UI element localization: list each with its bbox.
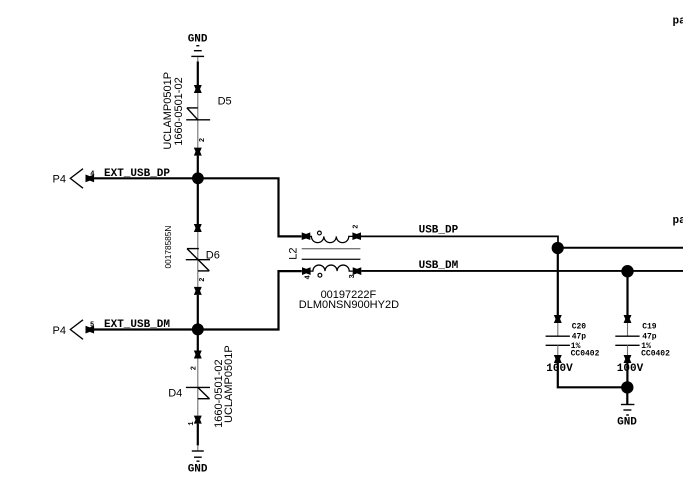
svg-text:2: 2 [199, 138, 207, 142]
L2 pin 3 marker [353, 267, 362, 275]
C20 pin 1 marker [554, 315, 562, 323]
svg-text:C20: C20 [572, 323, 587, 332]
svg-text:CC0402: CC0402 [571, 350, 600, 359]
wire EXT_USB_DM left [93, 328, 197, 330]
svg-text:100V: 100V [546, 363, 573, 375]
ground symbol bottom right [621, 405, 635, 416]
L2 core line 2 [302, 258, 361, 260]
C19 pin 1 marker [624, 315, 632, 323]
svg-text:1660-0501-02: 1660-0501-02 [173, 77, 185, 146]
svg-text:C19: C19 [642, 323, 657, 332]
wire EXT_USB_DP left [93, 177, 197, 179]
D4 pin stub wire [197, 359, 199, 416]
svg-text:P4: P4 [53, 325, 66, 337]
wire junction to ground [626, 390, 628, 404]
L2 polarity dot bottom [318, 273, 322, 277]
wire gnd-top to D5 pin1 [197, 57, 199, 62]
node USB_DM junction [621, 265, 633, 277]
svg-text:P4: P4 [53, 174, 66, 186]
ground symbol bottom (D4) [192, 451, 204, 461]
wire D4 to gnd-bottom [197, 424, 199, 446]
D6 pin 1 marker [194, 224, 202, 232]
P4 pin marker DP [86, 175, 95, 183]
node USB_DP junction [552, 242, 564, 254]
L2 pin 2 marker [352, 232, 361, 240]
C20 pin 2 marker [554, 355, 562, 363]
ground symbol top (flipped) [191, 46, 204, 57]
svg-text:pa: pa [673, 16, 683, 28]
C19 pin stub top [627, 323, 629, 336]
capacitor C20 plates [546, 336, 570, 345]
L2 bottom winding [310, 265, 353, 271]
wire node to D6 pin1 [197, 181, 199, 224]
wire D6 to node EXT_USB_DM [197, 295, 199, 326]
wire USB_DP from L2 pin2 to jog [361, 236, 558, 244]
wire node to C20 [557, 250, 559, 315]
svg-text:D6: D6 [206, 250, 220, 262]
svg-text:100V: 100V [617, 363, 644, 375]
diode D5 (TVS) [186, 108, 210, 120]
svg-text:4: 4 [304, 275, 312, 279]
wire USB_DM from L2 pin3 to right edge [361, 270, 683, 272]
svg-text:2: 2 [352, 224, 360, 228]
svg-text:D4: D4 [168, 387, 182, 399]
L2 polarity dot top [318, 231, 322, 235]
wire USB_DP to right edge [558, 247, 683, 249]
D5 pin stub wire [197, 93, 199, 148]
svg-text:GND: GND [617, 417, 637, 429]
P4 pin marker DM [86, 326, 95, 334]
L2 core line 1 [302, 248, 361, 250]
C20 pin stub bottom [557, 345, 559, 355]
svg-text:D5: D5 [218, 95, 232, 107]
svg-text:DLM0NSN900HY2D: DLM0NSN900HY2D [299, 299, 399, 311]
L2 top winding [310, 236, 353, 242]
D6 pin stub wire [197, 232, 199, 287]
svg-text:00178585N: 00178585N [163, 226, 173, 269]
node gnd junction [621, 381, 633, 393]
svg-text:L2: L2 [288, 248, 300, 260]
D4 pin 2 marker [194, 351, 202, 359]
P4 chevron DM [70, 320, 83, 340]
D6 pin 2 marker [194, 287, 202, 295]
wire node to D4 pin2 [197, 332, 199, 351]
svg-text:47p: 47p [642, 333, 657, 342]
svg-text:USB_DP: USB_DP [419, 225, 459, 237]
P4 chevron DP [70, 169, 83, 189]
wire EXT_USB_DP right + down to L2 pin1 [198, 178, 302, 236]
svg-text:GND: GND [188, 464, 208, 476]
svg-text:47p: 47p [572, 333, 587, 342]
wire C20 to gnd junction [558, 363, 622, 387]
capacitor C19 plates [615, 336, 639, 345]
diode D4 (TVS) [186, 387, 210, 398]
svg-text:2: 2 [190, 366, 198, 370]
svg-text:CC0402: CC0402 [641, 350, 670, 359]
D4 pin 1 marker [194, 416, 202, 424]
L2 pin 1 marker [302, 232, 311, 240]
node EXT_USB_DP junction [192, 172, 204, 184]
svg-text:GND: GND [188, 34, 208, 46]
wire C19 to gnd junction [626, 363, 628, 383]
C19 pin 2 marker [624, 355, 632, 363]
C19 pin stub bottom [627, 345, 629, 355]
D5 pin 2 marker [194, 148, 202, 156]
C20 pin stub top [557, 323, 559, 336]
wire EXT_USB_DM right + up to L2 pin4 [198, 271, 302, 329]
L2 pin 4 marker [302, 267, 311, 275]
svg-text:pa: pa [673, 215, 683, 227]
svg-text:3: 3 [349, 274, 357, 278]
diode D6 (bidirectional TVS) [186, 249, 210, 271]
wire D5 to node EXT_USB_DP [197, 156, 199, 175]
D5 pin 1 marker [194, 85, 202, 93]
wire node to C19 [626, 273, 628, 315]
node EXT_USB_DM junction [192, 323, 204, 335]
svg-text:2: 2 [199, 278, 207, 282]
svg-text:UCLAMP0501P: UCLAMP0501P [223, 345, 235, 423]
